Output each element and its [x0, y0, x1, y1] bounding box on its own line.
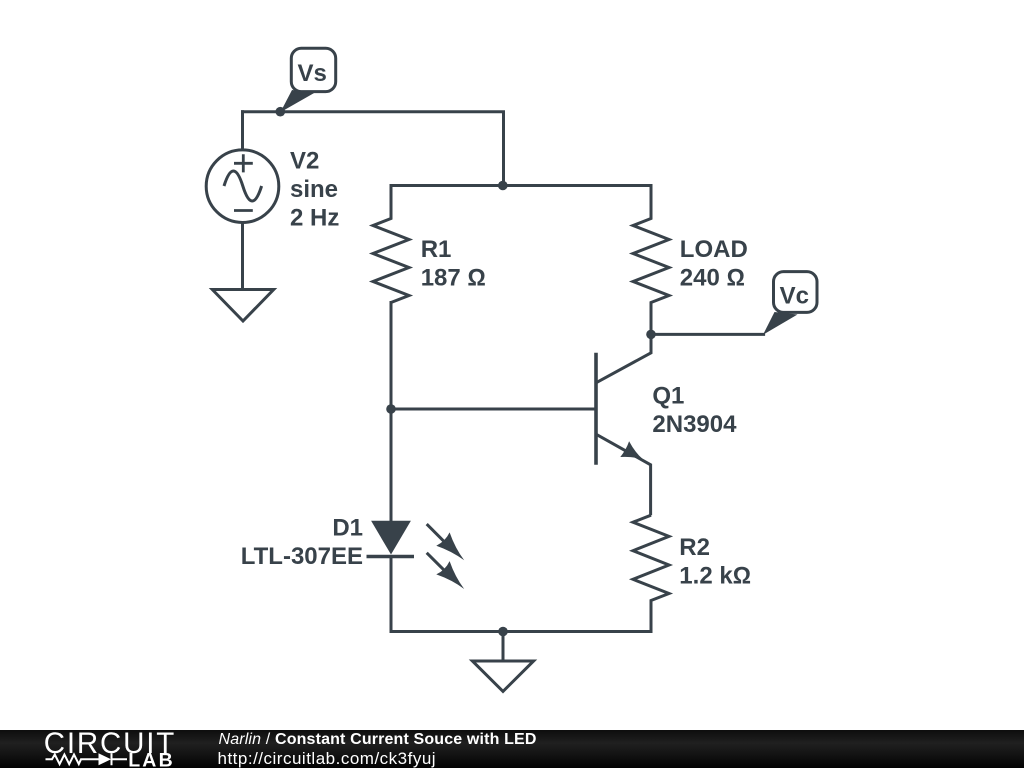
Q1 label: [652, 383, 737, 439]
wire second horizontal net: [391, 184, 651, 187]
wire base: [391, 408, 596, 411]
footer bar: [0, 730, 1024, 768]
wire LED cathode to bottom: [390, 558, 393, 632]
svg-text:R1: R1: [421, 236, 452, 263]
svg-text:240 Ω: 240 Ω: [680, 265, 745, 292]
wire V2 negative lead: [241, 225, 244, 290]
voltage source V2: [206, 150, 279, 223]
wire bottom net: [391, 630, 651, 633]
svg-text:2N3904: 2N3904: [652, 411, 737, 438]
LOAD label: [680, 236, 748, 292]
svg-text:V2: V2: [290, 147, 319, 174]
resistor R2: [633, 515, 669, 631]
transistor Q1: [596, 334, 651, 515]
LED D1: [367, 521, 415, 557]
D1 label: [241, 514, 363, 570]
junction dot base node: [386, 404, 396, 414]
junction dot collector node: [646, 330, 656, 340]
net label Vc: [763, 272, 817, 335]
svg-text:sine: sine: [290, 176, 338, 203]
svg-text:187 Ω: 187 Ω: [421, 265, 486, 292]
svg-text:LTL-307EE: LTL-307EE: [241, 543, 363, 570]
V2 label: [290, 147, 339, 231]
ground (V2): [212, 290, 273, 322]
LED D1 light arrows: [427, 524, 465, 589]
resistor R1: [373, 186, 409, 303]
Q1 emitter arrow: [620, 441, 643, 459]
svg-text:R2: R2: [679, 534, 710, 561]
svg-text:D1: D1: [332, 514, 363, 541]
svg-text:LOAD: LOAD: [680, 236, 748, 263]
svg-text:Vc: Vc: [780, 282, 809, 309]
ground (bottom): [472, 661, 533, 691]
svg-text:Q1: Q1: [652, 383, 684, 410]
junction dot Vs node: [276, 107, 286, 117]
CircuitLab logo: [0, 730, 220, 768]
footer url: [218, 750, 437, 767]
net label Vs: [280, 48, 335, 112]
svg-text:Vs: Vs: [298, 60, 327, 87]
resistor LOAD: [633, 186, 669, 335]
wire ground stub bottom: [502, 632, 505, 662]
svg-text:2 Hz: 2 Hz: [290, 204, 339, 231]
wire V2 positive lead: [241, 112, 244, 149]
wire top net Vs: [243, 112, 504, 186]
svg-text:LAB: LAB: [128, 749, 175, 768]
R2 label: [679, 534, 751, 590]
wire R1 bottom to LED top: [390, 303, 393, 521]
junction dot top net: [498, 181, 508, 191]
footer title: [219, 732, 537, 748]
junction dot ground node: [498, 627, 508, 637]
R1 label: [421, 236, 486, 292]
wire collector node to Vc: [651, 333, 764, 336]
svg-text:1.2 kΩ: 1.2 kΩ: [679, 562, 751, 589]
